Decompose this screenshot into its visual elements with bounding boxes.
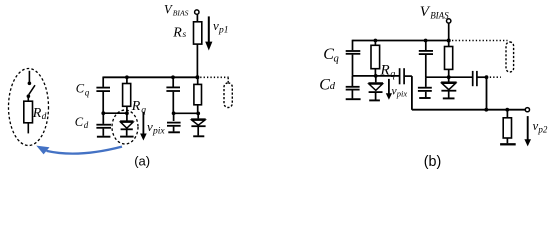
wire bbox=[126, 129, 128, 135]
load resistor bbox=[503, 118, 511, 138]
diode anode bar bbox=[120, 120, 133, 122]
svg-text:q: q bbox=[85, 87, 90, 97]
dotted stub to placeholder cell bbox=[227, 78, 229, 83]
resistor Rq (b) bbox=[371, 45, 380, 68]
node dot bbox=[196, 112, 200, 116]
diode triangle bbox=[442, 83, 456, 90]
ground bar bbox=[443, 97, 455, 99]
wire bbox=[102, 129, 104, 136]
diode cathode bar bbox=[441, 90, 456, 92]
ground bar bbox=[419, 97, 430, 99]
wire bbox=[27, 123, 29, 134]
Cd branch cell2: wire bbox=[173, 113, 175, 121]
svg-text:C: C bbox=[319, 76, 330, 93]
wire bbox=[351, 90, 353, 98]
resistor branch wire cell1 bbox=[126, 77, 128, 83]
diode triangle bbox=[369, 84, 382, 90]
wire bbox=[196, 44, 198, 77]
svg-text:(b): (b) bbox=[424, 154, 441, 170]
dotted continuation wire bbox=[200, 76, 230, 78]
top rail (b) bbox=[353, 40, 449, 42]
resistor branch wire cell2 bbox=[197, 77, 199, 84]
capacitor plates bbox=[166, 86, 180, 88]
wire bbox=[197, 105, 199, 114]
VBIAS terminal (b) bbox=[447, 19, 451, 23]
ground bar bbox=[97, 136, 111, 138]
diode triangle bbox=[121, 122, 133, 128]
capacitor plates bbox=[418, 87, 432, 89]
dashed highlight circle around diode bbox=[112, 110, 138, 144]
svg-text:R: R bbox=[380, 63, 390, 79]
node dot bbox=[125, 111, 129, 115]
diode cathode bar bbox=[121, 128, 133, 130]
arrow vpix (b) bbox=[388, 79, 390, 94]
photodiode cell2: anode wire bbox=[197, 113, 199, 118]
wire down to column line bbox=[486, 77, 488, 110]
wire bbox=[448, 69, 450, 77]
svg-text:q: q bbox=[390, 69, 395, 80]
ground bar bbox=[193, 135, 204, 137]
svg-text:p1: p1 bbox=[218, 26, 229, 36]
svg-text:(a): (a) bbox=[134, 153, 150, 168]
svg-text:pix: pix bbox=[152, 126, 165, 136]
wire bbox=[478, 76, 487, 78]
capacitor Cq plates bbox=[96, 87, 110, 89]
column output line (b) bbox=[412, 109, 525, 111]
wire bbox=[27, 96, 29, 101]
svg-text:s: s bbox=[183, 30, 187, 40]
mid node wire cell2 bbox=[426, 76, 472, 78]
output terminal circle bbox=[525, 108, 529, 112]
cell 1 (b): Cq branch wire bbox=[352, 40, 354, 51]
ground bar bbox=[168, 131, 180, 133]
Cd branch cell2: wire bbox=[425, 77, 427, 87]
node dot bbox=[485, 75, 489, 79]
resistor branch wire bbox=[448, 41, 450, 47]
node dot bbox=[374, 39, 378, 43]
svg-text:R: R bbox=[172, 26, 182, 41]
svg-text:d: d bbox=[330, 81, 336, 92]
svg-text:q: q bbox=[334, 54, 339, 65]
wire bbox=[506, 138, 508, 143]
node dot bbox=[171, 75, 175, 79]
wire bbox=[448, 23, 450, 40]
photodiode cell1: anode wire bbox=[126, 113, 128, 120]
wire bbox=[374, 69, 376, 76]
svg-text:C: C bbox=[75, 115, 84, 129]
mid node wire cell2 bbox=[173, 112, 198, 114]
wire bbox=[352, 55, 354, 76]
switch contact dot lower bbox=[27, 94, 31, 98]
svg-text:BIAS: BIAS bbox=[173, 8, 189, 17]
series coupling capacitor cell1 (b) bbox=[399, 68, 401, 84]
ground bar bbox=[120, 136, 134, 138]
svg-text:pix: pix bbox=[396, 89, 408, 99]
diode anode bar bbox=[441, 81, 457, 83]
resistor Rd bbox=[24, 101, 33, 123]
node dot bbox=[505, 108, 509, 112]
diode cathode bar bbox=[369, 91, 383, 93]
series coupling capacitor cell2 (b) bbox=[472, 71, 474, 86]
svg-text:BIAS: BIAS bbox=[430, 11, 449, 21]
resistor bbox=[445, 47, 453, 70]
resistor bbox=[194, 84, 202, 104]
node dot bbox=[484, 108, 488, 112]
svg-text:R: R bbox=[131, 99, 141, 114]
node dot bbox=[447, 75, 451, 79]
ground bar bbox=[369, 99, 380, 101]
wire bbox=[196, 14, 198, 21]
capacitor Cd plates bbox=[96, 124, 111, 126]
mid node wire cell1 bbox=[353, 75, 400, 77]
switch terminal wire (inside ellipse) bbox=[28, 71, 30, 82]
dashed magnifier ellipse bbox=[9, 69, 49, 146]
dashed placeholder cell capsule (a) bbox=[224, 83, 232, 108]
node dot bbox=[125, 75, 129, 79]
capacitor Cq plates bbox=[346, 50, 361, 52]
wire bbox=[126, 106, 128, 113]
photodiode cell1 (b): anode bar bbox=[368, 82, 383, 84]
diode triangle bbox=[192, 120, 205, 125]
svg-text:p2: p2 bbox=[537, 124, 548, 134]
wire bbox=[425, 55, 427, 77]
dotted continuation wire bbox=[490, 76, 501, 78]
ground bar bbox=[346, 98, 361, 100]
node dot bbox=[374, 74, 378, 78]
capacitor plates bbox=[167, 122, 181, 124]
arrow vp1 bbox=[208, 16, 210, 42]
top rail (a) bbox=[103, 76, 198, 78]
wire bbox=[425, 92, 427, 98]
cell 2 (a): Cq branch wire bbox=[172, 77, 174, 86]
ground bar bbox=[500, 143, 516, 145]
svg-text:R: R bbox=[32, 106, 42, 121]
wire to load resistor bbox=[506, 110, 508, 118]
arrow vpix (a) bbox=[142, 112, 144, 134]
mid node wire cell1 bbox=[103, 112, 127, 114]
svg-text:C: C bbox=[76, 82, 85, 96]
node dot bbox=[424, 39, 428, 43]
blue magnify arrow bbox=[36, 146, 122, 155]
resistor Rq bbox=[123, 84, 131, 107]
dotted continuation wire bbox=[452, 40, 508, 42]
node dot (VBIAS junction) bbox=[195, 75, 199, 79]
wire bbox=[102, 92, 104, 113]
wire down bbox=[411, 76, 413, 110]
wire bbox=[173, 127, 175, 132]
wire to column line bbox=[405, 75, 412, 77]
svg-text:d: d bbox=[42, 112, 47, 122]
wire bbox=[448, 91, 450, 98]
switch blade bbox=[29, 85, 35, 94]
wire bbox=[197, 126, 199, 135]
resistor Rs bbox=[194, 22, 202, 44]
svg-text:d: d bbox=[84, 120, 89, 130]
node dot (VBIAS junction) bbox=[447, 39, 451, 43]
diode wire through bbox=[375, 76, 377, 82]
cell 1 (a): Cq branch wire bbox=[102, 77, 104, 87]
Cd branch cell1: wire bbox=[102, 113, 104, 124]
arrow vp2 bbox=[527, 116, 529, 140]
wire bbox=[172, 92, 174, 114]
diode cathode bar bbox=[191, 125, 205, 127]
VBIAS terminal (a) bbox=[195, 10, 199, 14]
diode anode bar bbox=[191, 118, 206, 120]
switch contact dot upper bbox=[28, 82, 32, 86]
capacitor plates bbox=[419, 50, 433, 52]
capacitor Cd plates bbox=[346, 86, 360, 88]
photodiode cell2 (b): anode wire bbox=[448, 77, 450, 81]
dashed placeholder cell capsule (b) bbox=[506, 42, 514, 72]
cell 2 (b): Cq branch wire bbox=[425, 41, 427, 51]
Cd branch cell1: wire bbox=[351, 76, 353, 86]
node dot bbox=[172, 111, 176, 115]
node dot bbox=[101, 111, 105, 115]
resistor branch wire bbox=[374, 41, 376, 46]
wire bbox=[375, 92, 377, 99]
